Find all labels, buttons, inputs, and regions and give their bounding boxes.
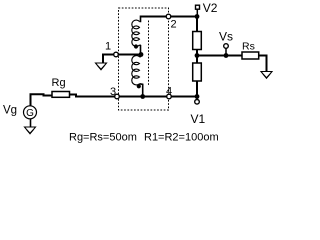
- ground at node 1: [96, 63, 107, 70]
- wire: right vertical V2 junction to R1: [196, 17, 198, 32]
- svg-text:3: 3: [110, 86, 116, 98]
- svg-text:G: G: [26, 108, 34, 119]
- wire: Vs probe stem: [225, 48, 227, 56]
- probe circle V1: [195, 100, 200, 105]
- wire: R1 to mid junction: [196, 50, 198, 64]
- svg-text:1: 1: [105, 41, 111, 53]
- ground right: [261, 72, 272, 79]
- svg-text:4: 4: [166, 86, 172, 98]
- wire: upper winding to tap: [140, 45, 141, 55]
- wire: lower winding to bottom wire: [140, 84, 143, 97]
- junction dot tap: [139, 52, 144, 57]
- inductor lower winding: [132, 55, 141, 85]
- wire: bottom wire node 3 to V1 junction: [118, 96, 197, 98]
- junction dot Vs: [224, 53, 229, 58]
- resistor R1: [193, 32, 202, 50]
- wire: Rg to node 3: [70, 95, 119, 97]
- junction dot V2: [195, 14, 200, 19]
- junction dot mid: [195, 53, 200, 58]
- wire: tap wire to node 1 and ground stub: [103, 55, 141, 63]
- node 3: [115, 94, 120, 99]
- svg-text:2: 2: [171, 19, 177, 31]
- svg-text:Rg=Rs=50om: Rg=Rs=50om: [69, 132, 137, 144]
- ground below Vg: [25, 127, 36, 134]
- polarity dot upper winding: [134, 44, 138, 48]
- wire: V2 terminal stem: [196, 9, 198, 16]
- svg-text:R1=R2=100om: R1=R2=100om: [144, 132, 219, 144]
- svg-text:Vs: Vs: [219, 30, 233, 44]
- wire: mid wire to Rs: [197, 55, 242, 57]
- wire: coil top stem: [140, 16, 141, 22]
- wire: Vg to Rg: [31, 94, 53, 106]
- wire: R2 to bottom junction: [196, 81, 198, 97]
- junction dot coil bottom: [140, 94, 145, 99]
- node 2: [166, 14, 171, 19]
- node 4: [167, 94, 172, 99]
- resistor Rg: [52, 92, 70, 98]
- svg-text:Rs: Rs: [242, 41, 255, 53]
- terminal V2 square: [196, 5, 200, 9]
- node 1: [114, 52, 119, 57]
- inductor upper winding: [132, 20, 140, 46]
- svg-text:Vg: Vg: [3, 105, 17, 117]
- wire: top wire from coil to V2 junction: [141, 16, 198, 18]
- junction dot bottom right: [195, 94, 200, 99]
- svg-text:V1: V1: [191, 112, 206, 126]
- probe circle Vs: [224, 44, 229, 49]
- wire: Rs to right ground: [259, 56, 267, 72]
- wire: V1 probe stem: [196, 97, 198, 101]
- svg-text:V2: V2: [203, 1, 218, 15]
- resistor Rs: [242, 52, 259, 59]
- svg-text:Rg: Rg: [52, 77, 66, 89]
- transformer boundary dashed box: [119, 8, 169, 110]
- polarity dot lower winding: [137, 84, 141, 88]
- source Vg circle: [24, 106, 37, 119]
- transformer core dashed line: [148, 21, 150, 86]
- resistor R2: [193, 63, 202, 81]
- wire: Vg bottom stem: [30, 119, 32, 127]
